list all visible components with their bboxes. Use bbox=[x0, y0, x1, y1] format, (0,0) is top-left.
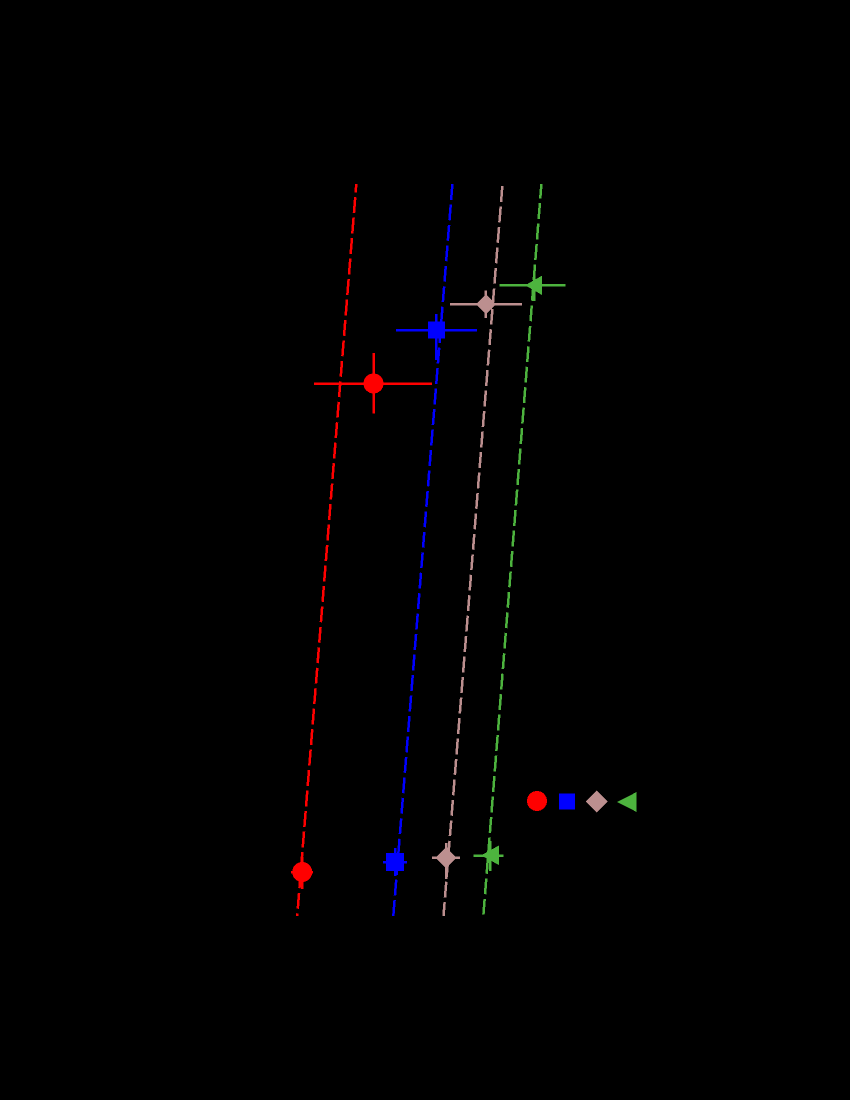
red dashed fit line bbox=[297, 184, 356, 916]
green dashed fit line bbox=[483, 184, 541, 916]
legend blue square bbox=[559, 794, 575, 810]
red top marker bbox=[364, 374, 384, 394]
legend red circle bbox=[527, 791, 547, 811]
rosybrown top errorbars bbox=[450, 291, 522, 319]
blue dashed fit line bbox=[393, 184, 452, 916]
blue top errorbars bbox=[396, 314, 477, 360]
legend rosybrown diamond bbox=[586, 791, 608, 813]
red bottom errorbars bbox=[291, 857, 313, 889]
blue bottom errorbars bbox=[383, 848, 407, 876]
rosybrown bottom marker bbox=[436, 847, 457, 868]
green bottom marker bbox=[481, 846, 499, 866]
legend green triangle bbox=[617, 792, 637, 812]
rosybrown top marker bbox=[476, 294, 496, 314]
red top errorbars bbox=[314, 353, 432, 413]
rosybrown bottom errorbars bbox=[432, 843, 460, 879]
red bottom marker bbox=[292, 862, 312, 882]
green top marker bbox=[525, 276, 542, 296]
green top errorbars bbox=[500, 271, 566, 302]
green bottom errorbars bbox=[474, 841, 504, 871]
blue bottom marker bbox=[386, 853, 404, 871]
blue top marker bbox=[428, 322, 445, 339]
rosybrown dashed fit line bbox=[444, 184, 503, 916]
